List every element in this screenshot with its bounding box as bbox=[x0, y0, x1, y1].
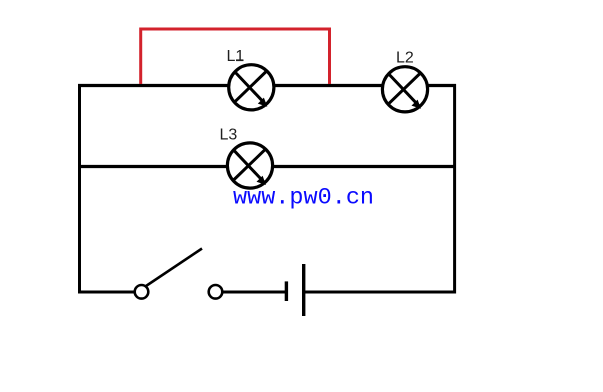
switch S1 terminal A bbox=[135, 285, 149, 299]
switch S1 lever bbox=[146, 249, 202, 287]
wire left vertical bbox=[78, 84, 81, 294]
wire top horizontal bbox=[78, 84, 456, 87]
battery negative plate (tall) bbox=[302, 264, 305, 316]
lamp L2 bbox=[382, 67, 427, 112]
wire bottom left segment bbox=[78, 291, 135, 294]
battery positive plate (short) bbox=[285, 281, 288, 301]
switch S1 terminal B bbox=[209, 285, 223, 299]
label L1 bbox=[227, 48, 245, 65]
wire battery to right bbox=[305, 291, 456, 294]
lamp L3 bbox=[227, 143, 272, 188]
wire right vertical bbox=[453, 84, 456, 294]
svg-text:L2: L2 bbox=[396, 50, 414, 67]
wire middle horizontal bbox=[78, 165, 456, 168]
svg-text:www.pw0.cn: www.pw0.cn bbox=[233, 185, 374, 212]
lamp L1 bbox=[229, 65, 274, 110]
svg-text:L3: L3 bbox=[220, 127, 238, 144]
wire switch to battery bbox=[223, 291, 286, 294]
wire red short-circuit bypass over L1 bbox=[141, 29, 330, 84]
svg-text:L1: L1 bbox=[227, 48, 245, 65]
